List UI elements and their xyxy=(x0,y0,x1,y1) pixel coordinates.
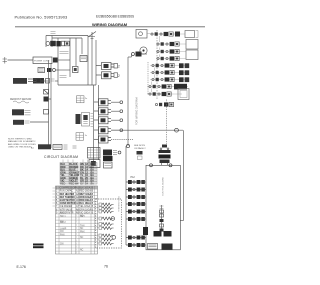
wire v x76 xyxy=(75,38,77,66)
svg-text:BLU 18GA: BLU 18GA xyxy=(79,202,91,205)
svg-text:EI28BS56GB8 EI28BS56S: EI28BS56GB8 EI28BS56S xyxy=(96,14,134,18)
connector row y104 xyxy=(155,103,157,105)
svg-text:NOTE: REFER TO MINI: NOTE: REFER TO MINI xyxy=(8,139,32,141)
node on bus xyxy=(126,144,129,147)
svg-text:COMPRESSOR: COMPRESSOR xyxy=(60,188,77,190)
ladder rung y197 xyxy=(126,196,146,198)
svg-text:THERMISTORS: THERMISTORS xyxy=(119,196,121,212)
thermistor row 9 xyxy=(99,242,102,245)
thermistor pin labels xyxy=(97,204,98,243)
thermistor row 3 xyxy=(99,210,102,213)
wire v x46 xyxy=(45,36,47,48)
header rule xyxy=(15,26,205,28)
edge connector dark block xyxy=(143,227,148,235)
svg-text:GA: GA xyxy=(90,166,94,169)
water valve circle xyxy=(140,47,147,54)
svg-text:FAN: FAN xyxy=(60,234,65,237)
inter-row links xyxy=(152,36,160,92)
thermistor row 4 xyxy=(99,217,102,220)
main control board box xyxy=(146,165,180,250)
node circles on box top xyxy=(150,164,153,167)
svg-text:GA: GA xyxy=(90,182,94,185)
svg-text:FOR WIRING DIAGRAM: FOR WIRING DIAGRAM xyxy=(136,97,139,125)
ladder rung y189.5 xyxy=(126,189,146,191)
inner bottom relays xyxy=(154,231,162,237)
svg-text:NC: NC xyxy=(80,216,84,218)
dispenser solenoid pair xyxy=(103,150,112,156)
lead to sensor a xyxy=(110,218,111,220)
svg-text:ON PAGE 2: ON PAGE 2 xyxy=(134,147,146,150)
ladder rail xyxy=(125,146,127,245)
heater loop row xyxy=(38,68,45,73)
dashed feeder xyxy=(147,62,149,95)
power cord box xyxy=(33,57,52,64)
connector row y58 xyxy=(156,58,186,60)
ice chute cap xyxy=(103,156,113,161)
thermistor row 7 xyxy=(99,234,102,237)
svg-text:DEFROST SENSOR: DEFROST SENSOR xyxy=(10,99,32,101)
svg-text:RUN CAPAC: RUN CAPAC xyxy=(60,190,74,193)
svg-text:BRN: BRN xyxy=(60,167,65,169)
main legend table frame xyxy=(56,186,98,254)
switch row y139 xyxy=(94,138,98,140)
svg-text:BLACK: BLACK xyxy=(69,163,77,166)
table cell text xyxy=(56,163,94,255)
legend feeder ticks xyxy=(63,160,88,163)
wire top h1 xyxy=(46,35,88,37)
terminal block xyxy=(53,58,58,63)
svg-text:NC: NC xyxy=(80,228,84,230)
branch ticks mid xyxy=(60,76,67,78)
svg-text:RED WH: RED WH xyxy=(69,183,79,185)
svg-text:USED ON THIS MODEL: USED ON THIS MODEL xyxy=(8,147,33,149)
connector row y94 xyxy=(147,93,182,95)
svg-text:NC: NC xyxy=(80,237,84,239)
svg-text:ON: ON xyxy=(60,222,64,224)
interlock cluster xyxy=(137,151,143,155)
svg-text:RED: RED xyxy=(60,183,65,185)
svg-text:RED 16GA: RED 16GA xyxy=(79,190,91,193)
overload relay cluster xyxy=(46,42,50,46)
main table row lines xyxy=(56,189,98,251)
svg-text:GA: GA xyxy=(90,163,94,166)
run capacitor dark box xyxy=(33,78,44,84)
left bus wires xyxy=(48,60,50,148)
wire top h2 xyxy=(52,37,82,39)
svg-text:76: 76 xyxy=(104,265,108,269)
svg-text:VIO: VIO xyxy=(60,181,64,183)
svg-text:ON: ON xyxy=(60,243,64,245)
thermistor row 5 xyxy=(99,223,102,226)
svg-text:2: 2 xyxy=(118,74,120,78)
connector row y65 xyxy=(150,65,188,67)
dashed section divider xyxy=(156,30,158,99)
svg-text:OR: OR xyxy=(80,181,84,183)
svg-text:WHT 16GA: WHT 16GA xyxy=(79,193,91,196)
wire v x88 xyxy=(87,36,89,86)
svg-text:BROWN: BROWN xyxy=(69,167,78,169)
svg-text:2: 2 xyxy=(118,65,120,69)
hinge cover box xyxy=(136,30,147,39)
fan motor cluster xyxy=(12,109,24,115)
wire into box right xyxy=(180,220,183,222)
svg-text:GA: GA xyxy=(90,177,94,180)
svg-text:CIRCUIT DIAGRAM: CIRCUIT DIAGRAM xyxy=(44,155,78,159)
wire v x92 xyxy=(91,37,93,86)
wire v x96 xyxy=(95,40,97,85)
svg-text:LAMP: LAMP xyxy=(60,227,67,230)
svg-text:BLU: BLU xyxy=(60,170,65,172)
svg-text:BRN 18GA: BRN 18GA xyxy=(79,199,91,202)
switch component row y75 xyxy=(96,74,101,76)
wire v x58 xyxy=(57,38,59,85)
svg-text:MANUAL FOR SCHEMATIC: MANUAL FOR SCHEMATIC xyxy=(8,140,36,143)
lamp component row y66 xyxy=(96,65,101,67)
light switch cluster xyxy=(13,120,24,125)
svg-text:DEF HEATER: DEF HEATER xyxy=(60,193,75,196)
svg-text:SEE NOTE: SEE NOTE xyxy=(134,145,146,147)
mini grid connector C xyxy=(76,133,84,141)
connector row y79 xyxy=(150,79,188,81)
svg-text:BK: BK xyxy=(80,170,84,172)
ptc component xyxy=(80,56,87,62)
svg-text:GA: GA xyxy=(90,171,94,174)
svg-text:GRN 18GA: GRN 18GA xyxy=(79,208,91,211)
table left ticks xyxy=(53,188,56,206)
svg-text:ON: ON xyxy=(60,212,64,214)
header block right xyxy=(80,163,97,185)
svg-text:ORN 18GA: ORN 18GA xyxy=(79,196,91,199)
svg-text:YELLOW: YELLOW xyxy=(69,175,80,177)
sensor circle a xyxy=(111,217,115,221)
wire v x70 xyxy=(69,38,71,77)
svg-text:PNK: PNK xyxy=(80,232,85,234)
svg-text:AND WIRE COLOR CODES: AND WIRE COLOR CODES xyxy=(8,143,36,146)
svg-text:COND MOTOR: COND MOTOR xyxy=(60,203,76,205)
svg-text:CONTROL BOARD: CONTROL BOARD xyxy=(162,177,165,196)
svg-text:BLUE: BLUE xyxy=(69,170,76,172)
svg-text:RD: RD xyxy=(80,167,84,169)
switch row y130 xyxy=(94,129,98,131)
inner chain components xyxy=(161,205,163,231)
svg-text:. . .: . . . xyxy=(146,29,150,32)
svg-text:POWER CORD: POWER CORD xyxy=(34,60,50,62)
thermistor row 2 xyxy=(99,207,102,210)
lamp row y111 xyxy=(94,110,98,112)
thermistor row 8 xyxy=(99,238,102,241)
svg-text:BLK: BLK xyxy=(60,164,65,166)
ladder rung y245 xyxy=(126,244,146,246)
mini grid connector A xyxy=(77,96,85,103)
svg-text:WIRING DIAGRAM: WIRING DIAGRAM xyxy=(92,22,128,27)
connector row y72 xyxy=(150,72,188,74)
top tick marks xyxy=(51,32,56,34)
wire v x52 xyxy=(51,36,53,48)
svg-text:ON: ON xyxy=(60,231,64,233)
svg-text:YEL: YEL xyxy=(60,175,65,177)
right drop wire xyxy=(183,130,185,220)
bus x128 xyxy=(127,57,129,146)
table header band xyxy=(56,186,98,189)
svg-text:GREEN: GREEN xyxy=(69,178,78,180)
svg-text:GRN: GRN xyxy=(60,178,65,180)
svg-text:NC: NC xyxy=(80,250,84,252)
connector row y51 xyxy=(156,51,186,53)
svg-text:P12: P12 xyxy=(131,176,136,179)
wire v x82 xyxy=(81,38,83,54)
legend note dark label xyxy=(33,244,44,249)
thermistor row 1 xyxy=(99,203,102,206)
svg-text:WH: WH xyxy=(80,164,84,166)
ladder rung y204 xyxy=(126,203,146,205)
svg-text:WTR VALVE: WTR VALVE xyxy=(60,208,73,211)
relay small box xyxy=(73,67,79,73)
svg-text:VIO 18GA: VIO 18GA xyxy=(79,211,90,214)
thermistor row 6 xyxy=(99,227,102,230)
svg-text:VIOLET: VIOLET xyxy=(69,181,78,183)
plug prongs xyxy=(3,57,8,64)
svg-text:ORANGE: ORANGE xyxy=(69,171,80,174)
lamp row y120 xyxy=(94,119,98,121)
thermostat small xyxy=(44,90,49,95)
ladder rung y219 xyxy=(126,218,146,220)
fresh food door row y54 xyxy=(132,53,135,56)
svg-text:DEF THERMO: DEF THERMO xyxy=(60,197,75,199)
svg-text:GA: GA xyxy=(90,174,94,177)
main h wire y130 xyxy=(111,129,183,131)
defrost heater row xyxy=(13,78,27,84)
header block left xyxy=(60,163,78,185)
svg-text:GA: GA xyxy=(90,169,94,172)
dispenser grid module xyxy=(88,148,101,159)
connector row y86 xyxy=(147,86,188,88)
middle bus wire xyxy=(93,85,95,165)
connector row y34 xyxy=(150,33,185,35)
middle bus wire 2 xyxy=(98,85,100,160)
ladder rung y237.5 xyxy=(126,237,146,239)
drop to transformer xyxy=(166,100,168,145)
lamp row y102 xyxy=(94,101,98,103)
main table columns xyxy=(59,186,95,254)
svg-text:TAN: TAN xyxy=(80,224,85,227)
svg-text:Publication No. 5995713903: Publication No. 5995713903 xyxy=(15,15,69,20)
node circle xyxy=(175,128,179,132)
connector row y44 xyxy=(156,43,186,45)
auger motor box xyxy=(89,160,100,168)
svg-text:BLK 16GA: BLK 16GA xyxy=(79,187,90,190)
svg-text:GN: GN xyxy=(80,172,84,174)
transformer stack xyxy=(162,145,167,148)
wire bottom h xyxy=(58,84,96,86)
ground chassis xyxy=(88,32,96,39)
svg-text:ICE MAKER: ICE MAKER xyxy=(60,205,73,208)
svg-text:ORN: ORN xyxy=(60,172,65,174)
svg-text:EVAP MOTOR: EVAP MOTOR xyxy=(60,199,76,202)
ladder rung y182 xyxy=(126,181,146,183)
dashed enclosure xyxy=(96,199,122,248)
start device ticks xyxy=(60,52,69,54)
damper motor cluster B xyxy=(76,114,81,124)
svg-text:GY: GY xyxy=(80,183,84,185)
svg-text:YEL 18GA: YEL 18GA xyxy=(79,205,90,208)
svg-text:SW 1: SW 1 xyxy=(60,216,66,218)
block density bands xyxy=(61,163,78,184)
svg-text:E-176: E-176 xyxy=(17,265,26,269)
sensor circle b xyxy=(112,236,116,240)
ladder rung y211.5 xyxy=(126,211,146,213)
svg-text:GA: GA xyxy=(90,180,94,183)
